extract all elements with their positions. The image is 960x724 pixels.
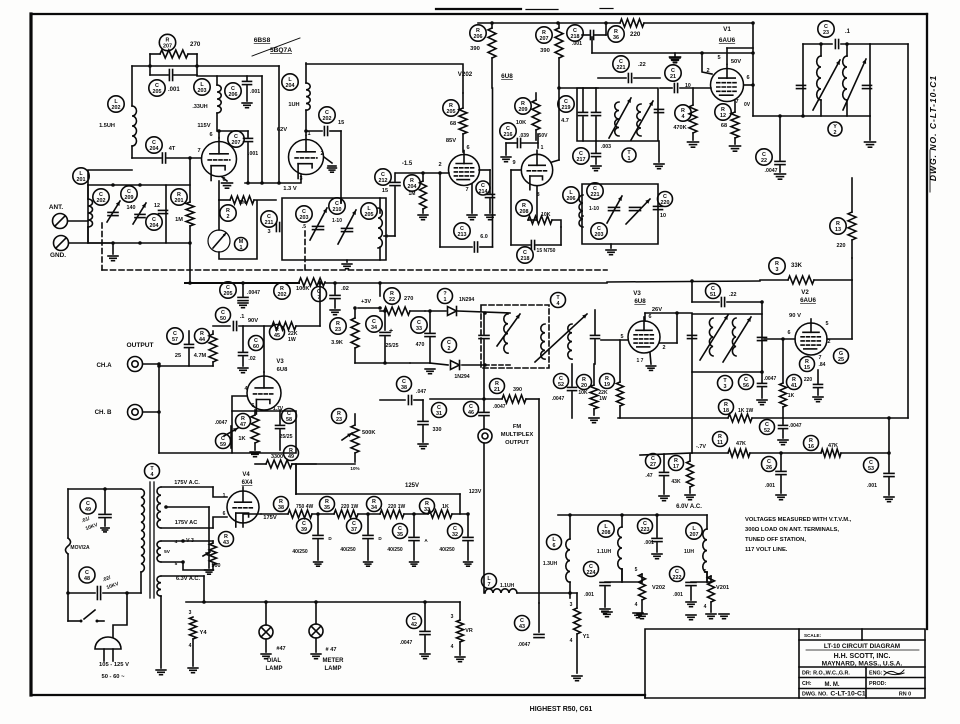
svg-text:1 7: 1 7	[637, 358, 644, 364]
designator C27	[646, 454, 661, 469]
inductor L202	[99, 96, 136, 158]
inductor L205	[361, 203, 383, 248]
resistor R209	[515, 93, 540, 140]
variable arrow tank2	[609, 98, 653, 140]
svg-text:10K: 10K	[578, 390, 588, 396]
wire het bus	[191, 331, 193, 345]
designator C42	[407, 614, 422, 629]
svg-text:V3: V3	[276, 359, 284, 365]
designator C35	[393, 524, 408, 539]
ground V202a	[467, 184, 477, 220]
designator C59	[216, 434, 231, 449]
svg-text:0V: 0V	[744, 102, 751, 108]
svg-text:203: 203	[198, 88, 207, 94]
resistor R34	[367, 497, 429, 519]
svg-text:C: C	[155, 83, 159, 89]
pentode V1	[706, 55, 750, 108]
capacitor C209	[121, 186, 146, 224]
designator C60	[249, 336, 264, 351]
capacitor C222	[670, 567, 708, 607]
designator L203	[194, 79, 210, 95]
wire tank1 stub	[341, 198, 380, 260]
antenna tank box	[88, 185, 166, 243]
designator R35	[320, 497, 335, 512]
svg-text:C: C	[663, 194, 667, 200]
lamp meter	[309, 600, 344, 672]
svg-text:C: C	[453, 526, 457, 532]
capacitor C219b	[558, 88, 601, 141]
svg-text:C: C	[402, 379, 406, 385]
svg-text:175V A.C.: 175V A.C.	[174, 480, 200, 486]
svg-text:90V: 90V	[248, 318, 258, 324]
svg-text:204: 204	[150, 223, 159, 229]
svg-text:R: R	[522, 203, 526, 209]
svg-text:CH.A: CH.A	[96, 362, 112, 369]
designator R18	[719, 400, 734, 415]
designator C221	[613, 56, 629, 72]
svg-text:219: 219	[562, 105, 571, 111]
svg-text:R: R	[241, 416, 245, 422]
designator R21	[490, 379, 505, 394]
capacitor C21	[660, 65, 711, 93]
designator C205	[220, 282, 236, 298]
meter M1	[208, 200, 257, 259]
tube label V2	[789, 289, 816, 319]
svg-text:1N294: 1N294	[454, 374, 469, 380]
svg-text:6: 6	[746, 75, 749, 81]
svg-text:205: 205	[153, 89, 162, 95]
svg-text:R: R	[721, 107, 725, 113]
resistor VR	[451, 602, 473, 662]
variable arrow tank1b	[338, 210, 356, 244]
resistor R21	[430, 379, 539, 604]
designator L207	[686, 523, 702, 539]
capacitor C42	[400, 600, 430, 659]
coil tank3b	[843, 44, 847, 116]
svg-text:4.7: 4.7	[561, 118, 569, 124]
designator C31	[432, 403, 447, 418]
svg-text:.0047: .0047	[400, 640, 413, 646]
svg-text:V2: V2	[801, 289, 809, 296]
svg-text:47K: 47K	[736, 441, 746, 447]
jack CH B	[95, 405, 161, 420]
designator R15	[800, 357, 826, 372]
svg-text:.001: .001	[765, 483, 775, 489]
svg-text:209: 209	[125, 195, 134, 201]
svg-text:1.3 V: 1.3 V	[283, 186, 297, 192]
title block ch row	[799, 681, 925, 689]
designator C203	[296, 206, 312, 222]
wire v201 cross	[197, 65, 279, 67]
svg-text:42: 42	[411, 622, 417, 628]
svg-text:R: R	[425, 501, 429, 507]
svg-text:25: 25	[175, 353, 181, 359]
designator C26	[762, 457, 777, 472]
svg-text:4: 4	[151, 472, 154, 478]
svg-text:26V: 26V	[652, 307, 662, 313]
wire HV tap	[205, 507, 214, 574]
svg-text:SCALE:: SCALE:	[804, 633, 822, 638]
svg-text:47: 47	[240, 422, 246, 428]
designator R2	[220, 205, 236, 221]
resistor R19	[598, 340, 623, 418]
svg-text:6.0: 6.0	[480, 234, 488, 240]
designator C202	[93, 189, 109, 205]
designator C218	[517, 247, 533, 263]
svg-text:.1: .1	[845, 29, 851, 35]
svg-text:123V: 123V	[469, 489, 482, 495]
svg-text:4: 4	[451, 644, 454, 650]
svg-text:140: 140	[127, 205, 136, 211]
designator R202	[274, 283, 290, 299]
svg-text:26: 26	[766, 465, 772, 471]
designator R47	[236, 414, 251, 429]
designator R34	[367, 497, 382, 512]
designator G25	[834, 349, 849, 364]
bottom caption	[530, 706, 593, 713]
title block name	[806, 643, 919, 650]
svg-text:C: C	[302, 209, 306, 215]
svg-text:41: 41	[791, 383, 797, 389]
svg-text:85V: 85V	[446, 138, 456, 144]
designator C56	[739, 375, 754, 390]
svg-text:12: 12	[154, 203, 160, 209]
svg-text:R: R	[805, 359, 809, 365]
resistor R18	[719, 400, 754, 423]
designator R205	[443, 100, 459, 116]
svg-text:R: R	[582, 377, 586, 383]
capacitor C214	[476, 170, 495, 220]
variable arrow rtank b	[723, 317, 751, 362]
resistor R202	[274, 278, 325, 299]
svg-text:17: 17	[673, 464, 679, 470]
svg-text:V202: V202	[458, 71, 473, 78]
title block notes area	[798, 629, 800, 698]
designator C206	[225, 83, 241, 99]
svg-text:C: C	[469, 404, 473, 410]
svg-text:C: C	[869, 460, 873, 466]
capacitor c-v2	[813, 370, 823, 402]
svg-text:.02: .02	[341, 286, 349, 292]
designator L6	[547, 535, 562, 550]
svg-text:6AU6: 6AU6	[719, 37, 736, 44]
tube label V3	[633, 290, 662, 313]
variable arrow tank3	[813, 59, 866, 110]
svg-text:R: R	[372, 499, 376, 505]
resistor R43	[183, 532, 234, 571]
svg-text:C: C	[152, 140, 156, 146]
designator T1	[622, 148, 636, 162]
svg-text:.001: .001	[248, 151, 258, 157]
designator C32	[448, 524, 463, 539]
capacitor C206	[225, 76, 260, 108]
designator T1	[622, 148, 636, 162]
svg-text:1: 1	[307, 131, 310, 137]
svg-text:1K: 1K	[238, 436, 245, 442]
capacitor C218	[567, 23, 606, 53]
svg-text:1K: 1K	[788, 393, 795, 399]
capacitor rtank l	[688, 335, 697, 338]
svg-text:1-10: 1-10	[332, 218, 342, 224]
svg-text:R: R	[724, 402, 728, 408]
svg-text:2: 2	[834, 130, 837, 136]
svg-text:VOLTAGES MEASURED WITH V.T.V.: VOLTAGES MEASURED WITH V.T.V.M.,	[745, 517, 852, 523]
svg-text:+: +	[389, 328, 393, 335]
designator C223	[638, 519, 653, 534]
designator Y2	[828, 122, 842, 136]
designator C218	[567, 25, 583, 41]
ground V201b grid	[324, 157, 336, 172]
resistor R45	[270, 282, 321, 343]
tube type callout	[252, 37, 300, 56]
svg-text:C: C	[412, 616, 416, 622]
designator L205	[361, 203, 377, 219]
capacitor C204	[146, 203, 168, 230]
svg-text:#47: #47	[276, 646, 285, 652]
triode V201a	[197, 123, 236, 183]
capacitor C43	[515, 603, 545, 650]
capacitor C34	[366, 311, 399, 363]
designator C220	[658, 192, 673, 207]
svg-text:35: 35	[397, 532, 403, 538]
svg-text:52: 52	[558, 382, 564, 388]
ground tank1	[342, 260, 352, 269]
coil rtank a	[709, 318, 713, 356]
svg-text:211: 211	[265, 220, 274, 226]
svg-text:R: R	[449, 103, 453, 109]
resistor R49	[255, 446, 316, 469]
svg-text:207: 207	[690, 532, 699, 538]
capacitor C46b	[482, 365, 486, 401]
ground V3b	[601, 311, 692, 370]
svg-text:4: 4	[635, 602, 638, 608]
diode D1	[425, 289, 510, 316]
svg-text:53: 53	[868, 466, 874, 472]
svg-text:C: C	[506, 126, 510, 132]
secondary HV	[157, 480, 213, 528]
svg-text:10%: 10%	[350, 466, 359, 471]
wire tank feed	[88, 184, 190, 186]
svg-text:203: 203	[595, 232, 604, 238]
svg-text:500K: 500K	[362, 430, 375, 436]
svg-text:C: C	[593, 186, 597, 192]
svg-text:.1: .1	[240, 314, 245, 320]
svg-text:13: 13	[835, 227, 841, 233]
designator R22	[384, 288, 400, 304]
crystal V202c	[622, 567, 665, 619]
svg-text:125V: 125V	[405, 483, 419, 489]
svg-text:6X4: 6X4	[242, 480, 253, 486]
svg-text:1N294: 1N294	[459, 297, 474, 303]
triode V201b	[277, 127, 324, 182]
inductor L201	[73, 168, 132, 185]
svg-text:7: 7	[488, 582, 491, 588]
svg-text:R: R	[200, 331, 204, 337]
title block box	[645, 629, 925, 698]
svg-text:52: 52	[764, 428, 770, 434]
svg-text:R: R	[836, 221, 840, 227]
svg-text:21: 21	[494, 387, 500, 393]
svg-text:49: 49	[85, 507, 91, 513]
wire V1 out	[744, 83, 803, 116]
svg-text:R: R	[809, 438, 813, 444]
svg-text:C: C	[579, 151, 583, 157]
wire right drop	[870, 44, 908, 418]
lamp dial	[259, 600, 286, 672]
svg-text:.33UH: .33UH	[192, 104, 207, 110]
svg-text:3: 3	[451, 614, 454, 620]
designator R12	[715, 104, 731, 120]
transformer core	[150, 482, 154, 598]
svg-text:220 1W: 220 1W	[341, 504, 359, 510]
svg-text:390: 390	[540, 48, 550, 54]
capacitor rtank r	[758, 337, 767, 340]
svg-text:218: 218	[571, 34, 580, 40]
variable arrow det2	[535, 314, 587, 362]
svg-text:C: C	[675, 569, 679, 575]
svg-text:R: R	[166, 37, 170, 43]
inductor L207	[684, 515, 707, 580]
coil tank2a	[615, 102, 619, 136]
svg-text:38: 38	[401, 385, 407, 391]
title block dwg row	[802, 691, 911, 698]
designator R36	[608, 26, 624, 42]
svg-text:206: 206	[474, 34, 483, 40]
svg-text:207: 207	[163, 44, 172, 50]
svg-text:20: 20	[581, 383, 587, 389]
designator L206	[563, 187, 579, 203]
ground antenna tank	[108, 243, 118, 261]
designator C211	[261, 211, 277, 227]
capacitor C35	[387, 512, 428, 566]
designator C52	[554, 374, 569, 389]
capacitor C26	[762, 451, 787, 500]
svg-text:205: 205	[447, 109, 456, 115]
svg-text:.001: .001	[867, 483, 877, 489]
capacitor C217	[573, 109, 664, 170]
svg-text:223: 223	[641, 527, 650, 533]
svg-text:10: 10	[660, 213, 666, 219]
svg-text:2: 2	[828, 339, 831, 345]
svg-text:7: 7	[197, 148, 200, 154]
svg-text:205: 205	[224, 291, 233, 297]
svg-text:5: 5	[621, 334, 624, 340]
wire fm	[483, 443, 485, 593]
designator C224	[584, 562, 599, 577]
capacitor C221	[598, 56, 660, 83]
svg-text:213: 213	[458, 232, 467, 238]
capacitor C27	[645, 454, 669, 501]
terminal ANT	[49, 204, 88, 229]
designator R44	[195, 329, 210, 344]
title block dr row	[799, 667, 925, 698]
IF tank T1 box	[282, 198, 386, 260]
svg-text:4: 4	[570, 638, 573, 644]
svg-text:212: 212	[379, 178, 388, 184]
designator T4	[145, 464, 160, 479]
svg-text:25/25: 25/25	[280, 434, 293, 440]
designator M1	[235, 238, 248, 252]
svg-text:43: 43	[519, 624, 525, 630]
wire top L203	[197, 76, 262, 183]
svg-text:3: 3	[776, 267, 779, 273]
capacitor C31	[418, 400, 447, 449]
resistor R201	[166, 158, 194, 245]
svg-text:15: 15	[382, 188, 388, 194]
ground tank3	[865, 116, 876, 147]
svg-text:4T: 4T	[169, 146, 176, 152]
svg-text:390: 390	[470, 46, 480, 52]
capacitor C213	[440, 173, 493, 252]
svg-text:175V: 175V	[263, 515, 277, 521]
svg-text:C: C	[767, 459, 771, 465]
svg-text:OUTPUT: OUTPUT	[505, 440, 529, 446]
svg-text:50V: 50V	[731, 59, 741, 65]
pot R23	[332, 409, 376, 472]
designator R16	[804, 436, 819, 451]
svg-text:202: 202	[112, 105, 121, 111]
capacitor C223	[638, 515, 663, 559]
svg-text:C: C	[86, 501, 90, 507]
capacitor C207	[228, 131, 258, 183]
resistor R3	[760, 258, 852, 300]
designator R3	[769, 258, 785, 274]
svg-text:222: 222	[673, 575, 682, 581]
resistor R11	[640, 432, 821, 458]
designator R209	[515, 98, 531, 114]
antenna coil L-ant	[88, 185, 93, 243]
svg-text:5: 5	[717, 55, 720, 61]
svg-text:220: 220	[804, 377, 813, 383]
svg-text:68: 68	[721, 123, 727, 129]
tube label 6U8	[501, 73, 513, 80]
svg-text:C: C	[302, 521, 306, 527]
triode V202b	[512, 145, 552, 198]
capacitor C211	[261, 211, 280, 235]
svg-text:50V: 50V	[539, 133, 549, 139]
svg-text:3: 3	[724, 384, 727, 390]
designator R23	[332, 409, 347, 424]
svg-text:R: R	[410, 178, 414, 184]
svg-text:56: 56	[743, 383, 749, 389]
pentode V2	[764, 280, 852, 361]
svg-text:6: 6	[466, 145, 469, 151]
wire V3a plate	[263, 326, 265, 372]
svg-text:C: C	[564, 99, 568, 105]
designator C217	[573, 148, 589, 164]
dashed AGC up	[304, 228, 306, 270]
svg-text:300Ω LOAD ON ANT. TERMINALS,: 300Ω LOAD ON ANT. TERMINALS,	[745, 527, 839, 533]
svg-text:39: 39	[301, 527, 307, 533]
svg-text:5: 5	[704, 569, 707, 575]
designator R11	[713, 432, 728, 447]
svg-text:50: 50	[220, 316, 226, 322]
capacitor C205	[149, 70, 197, 97]
svg-text:58: 58	[286, 417, 292, 423]
svg-text:6U8: 6U8	[277, 367, 288, 373]
svg-text:.001: .001	[673, 592, 683, 598]
svg-text:.001: .001	[250, 89, 260, 95]
svg-text:40/250: 40/250	[340, 547, 356, 553]
svg-text:45: 45	[274, 333, 280, 339]
svg-text:ENG:: ENG:	[869, 671, 883, 677]
svg-text:C: C	[559, 376, 563, 382]
svg-text:15: 15	[338, 120, 344, 126]
svg-text:C: C	[335, 201, 339, 207]
svg-text:R: R	[337, 411, 341, 417]
svg-text:C: C	[221, 436, 225, 442]
svg-text:90 V: 90 V	[789, 313, 801, 319]
